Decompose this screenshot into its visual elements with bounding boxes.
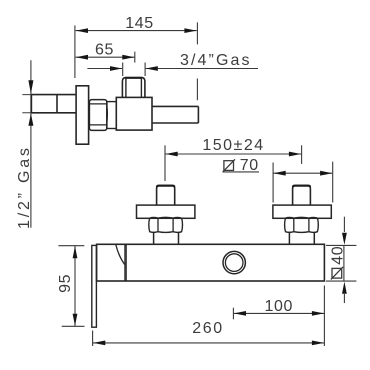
dimension 3/4 Gas leader/underline with arrow [146, 68, 258, 70]
bar left cap joint [125, 244, 126, 281]
shower bar body (front view) [97, 244, 325, 281]
wall flange (side view) [76, 86, 89, 144]
dimension 260 line [93, 342, 324, 344]
svg-text:40: 40 [330, 246, 347, 265]
left valve hex nut [149, 217, 183, 232]
valve body (side view) [116, 97, 152, 130]
dimension square70 arrows [274, 171, 333, 176]
dimension 145 line [76, 30, 197, 32]
arrow down at pipe top (1/2 Gas dim) [28, 80, 33, 94]
hex nut (side view) [89, 100, 106, 131]
dimension 3/4 Gas ticks on port [123, 63, 145, 77]
dimension 40 lower leader with arrow [343, 294, 345, 303]
dimension 100 tick left [232, 308, 234, 320]
left valve stem [157, 185, 175, 205]
wall plate (front view) [92, 245, 97, 327]
svg-text:1/2” Gas: 1/2” Gas [16, 145, 33, 229]
dimension 40 vertical line (label underline) [343, 245, 345, 281]
right valve flange plate [273, 205, 331, 218]
dimension 100 arrows [234, 311, 324, 316]
top port 3/4 Gas (side view) [122, 78, 144, 98]
square symbol for 70 [224, 161, 234, 171]
dimension 145 arrows [76, 28, 197, 33]
left valve flange plate [137, 205, 195, 218]
extension overshoot lines at pipe end [22, 95, 31, 113]
dimension 145 extension line right [196, 22, 198, 100]
right valve stem [293, 185, 311, 205]
dimension 65 line [76, 56, 135, 58]
outlet circle on bar [223, 251, 245, 273]
dimension 260 extension lines [93, 286, 325, 347]
dimension 40 extension lines [326, 245, 356, 281]
right valve centerline [301, 145, 303, 164]
square symbol for 40 (rotated) [332, 268, 342, 278]
pipe joint line [56, 95, 58, 113]
svg-text:3/4”Gas: 3/4”Gas [180, 52, 252, 69]
dimension 150±24 line [165, 153, 301, 155]
outlet pipe (side view) [152, 106, 198, 123]
svg-text:65: 65 [95, 42, 114, 59]
svg-text:100: 100 [265, 298, 294, 315]
inlet pipe (side view) [31, 95, 76, 113]
bar chamfer diagonal [116, 245, 125, 265]
arrow up at pipe bottom (1/2 Gas dim) [28, 114, 33, 126]
wire: 1/2 Gas leader vertical line [30, 60, 32, 227]
dimension 95 line [74, 246, 76, 326]
svg-text:95: 95 [57, 274, 74, 293]
dimension 100 line [234, 312, 325, 314]
dimension 40 upper leader with arrow [343, 217, 345, 232]
dimension 95 arrows [73, 246, 78, 326]
dimension 95 extension lines [58, 246, 84, 327]
connector ring (side view) [107, 102, 116, 129]
right valve neck [289, 232, 314, 244]
dimension 145 extension line left [74, 25, 76, 78]
dimension square70 extension lines [273, 162, 333, 203]
dimension 65 arrows [76, 55, 135, 60]
dimension 260 arrows [93, 341, 324, 346]
dimension 65 tick right [134, 52, 136, 63]
underline of square70 label [223, 171, 260, 173]
dimension square70 line [273, 172, 332, 174]
left valve centerline [164, 145, 166, 181]
left valve neck [154, 232, 179, 244]
svg-text:150±24: 150±24 [202, 137, 264, 154]
svg-text:260: 260 [192, 320, 224, 337]
dimension 3/4 Gas left tail with arrow [87, 68, 122, 70]
dimension 150±24 arrows [166, 152, 302, 157]
right valve hex nut [285, 217, 319, 232]
svg-text:145: 145 [125, 15, 154, 32]
